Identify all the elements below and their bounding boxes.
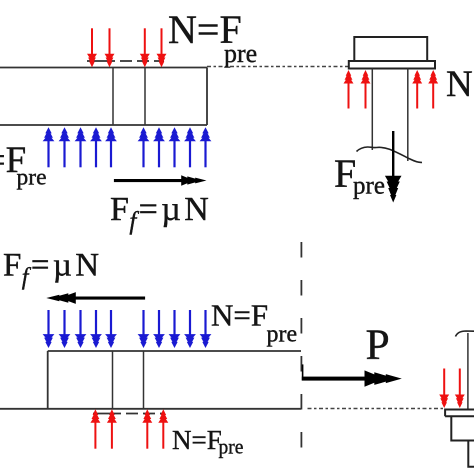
arrow normal N down 6 (lower beam) — [138, 310, 150, 348]
arrow clamp reaction up 1 (bolt top-right) — [344, 70, 354, 109]
break squiggle line (bottom-right) — [456, 331, 474, 337]
svg-text:pre: pre — [353, 173, 385, 200]
wire bolt shank line (bottom-right) — [467, 333, 469, 410]
arrow bolt pretension Fpre down (top-right) — [385, 131, 402, 203]
arrow clamp reaction up 4 (bolt top-right) — [428, 70, 438, 109]
arrow reaction up 8 (upper beam) — [169, 127, 181, 167]
washer flange (top-right) — [349, 61, 435, 69]
wire upper bolt hole left hidden line — [112, 68, 114, 126]
wire dashed divider line — [300, 242, 302, 466]
wire upper clamp plate dashed outline — [87, 60, 164, 62]
arrow reaction up 1 (upper beam) — [43, 127, 55, 167]
arrow reaction up 4 (upper beam) — [90, 127, 102, 167]
arrow preload N down 3 (upper beam) — [140, 28, 150, 67]
arrow friction force left (lower beam) — [46, 292, 145, 304]
arrow normal N down 4 (lower beam) — [90, 310, 102, 348]
arrow normal N down 5 (lower beam) — [105, 310, 117, 348]
arrow normal N down 10 (lower beam) — [200, 310, 212, 348]
bolt stud end below nut (bottom-right) — [468, 441, 474, 467]
arrow reaction up 7 (upper beam) — [153, 127, 165, 167]
arrow clamp reaction down 1 (bolt bottom-right) — [439, 369, 449, 409]
arrow clamp reaction down 2 (bolt bottom-right) — [455, 369, 465, 409]
wire upper bolt hole right hidden line — [144, 68, 146, 126]
svg-text:pre: pre — [219, 438, 244, 459]
arrow reaction up 5 (upper beam) — [105, 127, 117, 167]
arrow clamp reaction up 3 (bolt top-right) — [412, 70, 422, 109]
wire upper beam top edge — [0, 67, 207, 69]
arrow reaction up 3 (upper beam) — [75, 127, 87, 167]
svg-text:N=F: N=F — [211, 298, 268, 333]
arrow normal N down 2 (lower beam) — [59, 310, 71, 348]
arrow preload N down 4 (upper beam) — [157, 28, 167, 67]
arrow preload N down 1 (upper beam) — [87, 28, 97, 67]
arrow normal N down 8 (lower beam) — [169, 310, 181, 348]
arrow preload N down 2 (upper beam) — [105, 28, 115, 67]
arrow clamp reaction up 2 (bolt top-right) — [361, 70, 371, 109]
washer flange (bottom-right) — [445, 410, 474, 417]
svg-text:N=F: N=F — [172, 425, 222, 455]
svg-text:Ff=µN: Ff=µN — [110, 191, 212, 235]
arrow preload N up 2 (lower beam) — [107, 409, 117, 449]
arrow applied load P right — [302, 364, 402, 386]
arrow reaction up 2 (upper beam) — [59, 127, 71, 167]
wire bolt shank right line (top-right) — [407, 69, 409, 162]
arrow preload N up 1 (lower beam) — [90, 409, 100, 449]
wire upper beam right edge — [206, 68, 208, 126]
bolt head (top-right) — [354, 37, 427, 61]
svg-text:pre: pre — [224, 39, 257, 68]
arrow preload N up 3 (lower beam) — [142, 409, 152, 449]
wire dotted reference line upper — [207, 66, 348, 68]
wire lower bolt hole right hidden line — [143, 351, 145, 409]
arrow reaction up 6 (upper beam) — [138, 127, 150, 167]
arrow friction force right (upper beam) — [114, 175, 207, 185]
wire dotted reference line lower — [308, 408, 444, 410]
nut body (bottom-right) — [451, 416, 474, 440]
break squiggle line (top-right) — [357, 147, 423, 162]
arrow normal N down 7 (lower beam) — [153, 310, 165, 348]
wire upper beam bottom edge — [0, 124, 207, 126]
arrow preload N up 4 (lower beam) — [158, 409, 168, 449]
arrow reaction up 10 (upper beam) — [200, 127, 212, 167]
svg-text:pre: pre — [267, 322, 298, 348]
wire lower bolt hole left hidden line — [112, 351, 114, 409]
arrow normal N down 3 (lower beam) — [75, 310, 87, 348]
svg-text:P: P — [366, 321, 390, 369]
wire lower clamp plate dashed outline — [93, 413, 164, 415]
wire bolt shank left line (top-right) — [371, 69, 373, 151]
svg-text:pre: pre — [17, 165, 47, 191]
arrow reaction up 9 (upper beam) — [184, 127, 196, 167]
svg-text:N: N — [446, 64, 473, 105]
arrow normal N down 9 (lower beam) — [184, 310, 196, 348]
wire lower beam left edge — [47, 351, 49, 409]
wire lower beam bottom edge — [0, 408, 301, 410]
wire lower beam top edge — [48, 350, 301, 352]
svg-text:Ff=µN: Ff=µN — [3, 248, 103, 291]
arrow normal N down 1 (lower beam) — [43, 310, 55, 348]
